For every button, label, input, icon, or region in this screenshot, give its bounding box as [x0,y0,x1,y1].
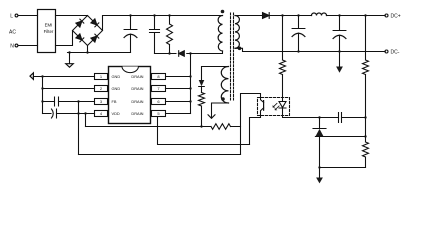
opto light arrows [273,103,279,109]
wire pin5 [166,113,191,115]
wire EMI to bridge top corner [56,15,88,17]
svg-text:3: 3 [100,99,103,104]
junction dot C4 top [338,14,340,16]
pin 2 box [95,86,108,92]
svg-text:Filter: Filter [44,29,54,34]
wire N to EMI [18,45,38,47]
junction dot clamp R bottom [168,52,170,54]
secondary top rail [270,15,385,17]
resistor R fb horizontal [211,124,231,130]
svg-text:N: N [10,43,14,49]
svg-text:7: 7 [157,86,160,91]
junction dot C4 bottom rail [338,50,340,52]
junction dot drain row7 [189,87,191,89]
junction dot anode ground [318,166,320,168]
wire pin3 FB with capacitor C fb [43,101,95,103]
wire pin4 VDD with capacitor C vdd [43,113,95,115]
drain bus [190,54,192,114]
svg-text:FB: FB [112,99,117,104]
opto collector path [241,94,261,155]
svg-text:AC: AC [9,29,16,35]
opto LED branch wire and resistor R opto [280,16,286,98]
opto phototransistor [263,101,265,111]
svg-text:DRAIN: DRAIN [131,74,143,79]
capacitor C3 output electrolytic [292,16,305,52]
svg-text:GND: GND [112,74,121,79]
aux winding top lead [202,67,229,81]
junction dot drain row8 [189,75,191,77]
DC+ terminal [385,14,388,17]
terminal L [15,14,18,17]
pin 8 box [152,74,166,80]
ground line S [79,154,241,156]
junction dot comp right [364,116,366,118]
secondary top lead [235,15,263,17]
aux bottom lead [212,103,229,117]
zener shunt regulator U3 [313,118,326,129]
bridge diode top-left [76,19,84,27]
junction dot ground rail [68,51,70,53]
wire pin1 [33,76,94,78]
VDD vertical drop to line P [85,114,87,127]
secondary phase dot [238,47,242,51]
opto emitter path [250,116,261,145]
junction dot bus row3 [41,100,43,102]
compensation cathode line [283,116,366,118]
bridge rectifier BR1 diamond [73,16,103,46]
secondary return rail [235,48,385,51]
ground arrow feedback [316,178,323,184]
junction dot bus row2 [41,87,43,89]
pin 1 box [95,74,108,80]
junction dot bridge minus [86,51,88,53]
junction dot drain row6 [189,100,191,102]
svg-text:L: L [10,13,13,19]
aux diode D3 pointing down [199,80,205,86]
DC- terminal [385,50,388,53]
bridge diode top-right [91,19,99,27]
junction dot drain node [189,52,191,54]
pin 3 box [95,99,108,105]
junction dot bus row1 [41,75,43,77]
left bus [42,77,44,114]
secondary ground arrow [336,67,343,73]
pin 7 box [152,86,166,92]
aux winding [221,67,228,104]
junction dot aux supply [200,125,202,127]
reference line to divider [324,136,366,138]
junction dot VDD row A [77,112,79,114]
primary phase dot [221,10,225,14]
wire pin7 [166,88,191,90]
transformer core [231,13,234,100]
EMI filter box [38,10,56,53]
pin 5 box [152,111,166,117]
ground arrow aux [208,115,215,119]
wire pin2 [43,88,95,90]
pin 4 box [95,111,108,117]
capacitor C2 clamp [150,16,160,54]
FB vertical drop to line S [78,102,80,155]
clamp diode D1 pointing left [179,51,185,57]
divider resistor R upper [363,16,369,118]
output diode D2 [263,13,270,19]
wire drain node to primary bottom [191,51,223,54]
svg-text:DC+: DC+ [391,14,401,20]
feedback ground line [320,167,366,169]
junction dot VDD row B [84,112,86,114]
capacitor C fb plates [55,97,59,106]
IC U1 body [109,67,151,124]
svg-text:DRAIN: DRAIN [131,86,143,91]
wire L to EMI [18,15,38,17]
svg-text:DRAIN: DRAIN [131,99,143,104]
junction dot C3 top [297,14,299,16]
svg-text:6: 6 [157,99,160,104]
IC notch [122,67,138,73]
output inductor L1 [312,13,327,15]
divider resistor R lower [363,118,369,168]
junction dot C1 top [129,14,131,16]
svg-text:5: 5 [157,111,160,116]
transformer T1 secondary winding [235,16,239,49]
junction dot opto branch top [281,14,283,16]
VDD line P [86,126,241,128]
junction dot R clamp top [168,14,170,16]
primary ground rail [68,52,131,54]
wire bridge minus drop [87,46,89,53]
capacitor C1 bulk electrolytic [124,16,137,53]
wire pin8 [166,76,191,78]
ground arrow primary [69,53,71,64]
capacitor C vdd polarized [52,109,57,118]
svg-text:DRAIN: DRAIN [131,111,143,116]
capacitor C4 second electrolytic [333,16,346,67]
svg-text:GND: GND [112,86,121,91]
svg-text:4: 4 [100,111,103,116]
bridge diode bottom-left [76,34,84,42]
junction dot FB node [77,100,79,102]
wire pin6 [166,101,191,103]
FB line Q from pin5 riser [158,117,250,145]
clamp node line [155,53,191,55]
bridge diode bottom-right [91,34,99,42]
optocoupler U2 box [258,98,290,116]
svg-text:EMI: EMI [45,23,53,28]
svg-text:2: 2 [100,86,103,91]
pin 6 box [152,99,166,105]
svg-text:VDD: VDD [112,111,120,116]
wire EMI to bridge left corner [56,31,73,46]
aux resistor R vdd [199,93,205,127]
capacitor C comp series [339,113,342,123]
svg-text:1: 1 [100,74,103,79]
junction dot zener cathode [318,116,320,118]
svg-text:DC-: DC- [391,50,400,56]
junction dot ref divider [364,135,366,137]
resistor R clamp [167,16,173,54]
junction dot C2 top [153,14,155,16]
wire bridge plus riser and DC bus rail [103,16,223,31]
junction dot divider top [364,14,366,16]
opto LED [282,98,284,102]
terminal N [15,44,18,47]
svg-text:8: 8 [157,74,160,79]
net arrow GND return [30,73,33,79]
transformer T1 primary winding [218,16,222,52]
aux phase dot [221,97,225,101]
junction dot C3 bottom [297,50,299,52]
